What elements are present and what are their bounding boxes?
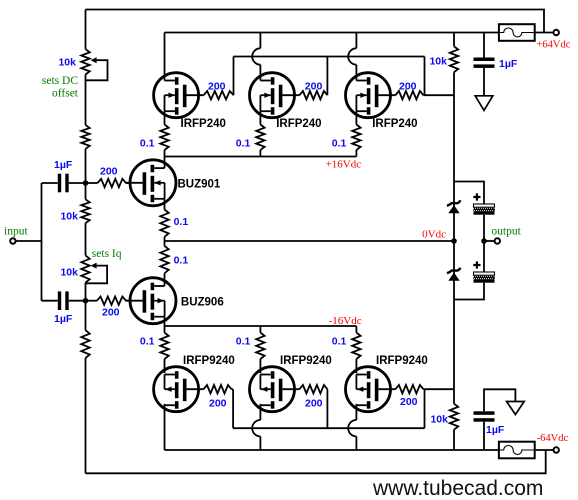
wire 0.1 to +16 bus [164, 150, 166, 157]
svg-text:0.1: 0.1 [140, 138, 155, 150]
transistor Q7 IRFP9240 [250, 367, 300, 412]
wire input to splitter [16, 240, 42, 242]
wire 0.1 to output line [164, 237, 166, 241]
label www.tubecad.com [372, 477, 543, 500]
label 200 Q7 [305, 398, 323, 410]
capacitor C1 1uF input top [58, 174, 69, 193]
resistor 10k bottom right [450, 404, 458, 430]
svg-text:offset: offset [52, 87, 79, 99]
wire IRFP9240-1 source from bus [164, 326, 166, 333]
svg-text:BUZ906: BUZ906 [181, 297, 224, 309]
wire left column segment pot1-res [85, 75, 87, 126]
wire top gate bus [234, 56, 425, 58]
resistor 0.1 Q8 source [352, 333, 360, 359]
wire BUZ901 drain from bus [164, 157, 166, 169]
svg-text:0.1: 0.1 [236, 336, 251, 348]
label 200 Q1 [208, 81, 226, 93]
resistor 0.1 Q7 source [256, 333, 264, 359]
svg-text:10k: 10k [58, 56, 76, 68]
label 200 Q6 [209, 398, 227, 410]
svg-text:1µF: 1µF [499, 58, 518, 70]
wiper of P1 [86, 57, 108, 80]
wire rail cap to ground [483, 68, 485, 96]
svg-text:IRFP9240: IRFP9240 [280, 355, 332, 367]
wire -16V source bus [165, 325, 357, 327]
wire left column segment pot2-nodeB [85, 283, 87, 331]
wire C2 to node B [69, 300, 86, 302]
svg-text:www.tubecad.com: www.tubecad.com [372, 477, 543, 500]
wire Q6 drain to rail [164, 404, 166, 450]
resistor upper-left (unlabeled) [81, 125, 89, 149]
label BUZ906 [181, 297, 224, 309]
capacitor electrolytic bottom [474, 272, 495, 283]
wire left column segment res-nodeA [85, 149, 87, 200]
wire Q3 source down [355, 111, 357, 124]
wire 0.1 Q8 to transistor [355, 359, 357, 373]
svg-text:0.1: 0.1 [174, 255, 189, 267]
svg-text:IRFP240: IRFP240 [181, 118, 226, 130]
label -64Vdc [537, 433, 569, 444]
wire to C1 [42, 182, 58, 184]
wire IRFP9240-7 source from bus [259, 326, 261, 333]
wire C1 to node A [69, 182, 86, 184]
wire IRFP240-3 drain lower [355, 65, 357, 81]
node B junction dot [83, 298, 89, 304]
svg-text:-64Vdc: -64Vdc [537, 433, 569, 444]
wire BUZ906 source to -16 bus [164, 317, 166, 326]
wire IRFP240-2 drain upper [259, 33, 261, 49]
resistor 0.1 Q1 source [160, 125, 168, 151]
wire bias line upper [453, 72, 455, 241]
plus sign bottom cap [473, 261, 480, 268]
label 1uF top rail [499, 58, 518, 70]
svg-text:BUZ901: BUZ901 [178, 178, 221, 190]
wire 0.1 to BUZ906 drain [164, 273, 166, 286]
svg-text:1µF: 1µF [54, 313, 73, 325]
hop of drain wire 2 over gate bus [252, 48, 260, 64]
wire 0.1 to Q6 [164, 359, 166, 373]
label 200 BUZ906 gate [102, 307, 120, 319]
wire top cap branch [454, 182, 484, 205]
transistor Q8 IRFP9240 [346, 367, 396, 412]
label 0.1 Q1 [140, 138, 155, 150]
label BUZ901 [178, 178, 221, 190]
svg-text:0Vdc: 0Vdc [422, 229, 446, 241]
plus sign top cap [473, 193, 480, 200]
label P1 10k [58, 56, 76, 68]
resistor 0.1 Q6 source [160, 333, 168, 359]
svg-text:sets Iq: sets Iq [92, 248, 122, 260]
hop of drain wire 3 over gate bus [348, 48, 356, 64]
label +64Vdc [537, 40, 571, 51]
wire bias line top [453, 33, 455, 47]
output terminal [495, 238, 500, 243]
zener diode top [447, 200, 460, 213]
wire Q8 gate to bias line [423, 388, 454, 390]
svg-text:0.1: 0.1 [140, 336, 155, 348]
fuse F1 +64V [499, 24, 535, 41]
svg-text:output: output [491, 226, 521, 238]
wire output line to 0.1 [164, 241, 166, 246]
svg-text:1µF: 1µF [54, 159, 73, 171]
label 0.1 Q7 [236, 336, 251, 348]
label 200 Q8 [400, 396, 418, 408]
wire input splitter vertical [41, 183, 43, 301]
wire IRFP240-2 drain lower [259, 65, 261, 81]
potentiometer P2 10k sets Iq [81, 255, 89, 282]
svg-text:200: 200 [399, 81, 417, 93]
wire Q7 drain lower [259, 436, 261, 450]
wire IRFP240-1 drain from rail [164, 33, 166, 81]
svg-text:200: 200 [209, 398, 227, 410]
resistor 200 Q3 gate [395, 91, 423, 99]
label Q7 IRFP9240 [280, 355, 332, 367]
svg-text:-16Vdc: -16Vdc [329, 315, 362, 327]
wire +16V source bus [165, 156, 357, 158]
fuse F2 -64V [499, 442, 535, 459]
resistor 0.1 Q2 source [256, 125, 264, 151]
wire IRFP240-3 drain upper [355, 33, 357, 49]
wire bias line bottom [453, 430, 455, 450]
resistor 200 Q6 gate [204, 385, 232, 393]
wire Q8 drain upper [355, 404, 357, 420]
wire R to BUZ901 gate [126, 182, 131, 184]
wire top cap to output node [483, 215, 485, 241]
wire IRFP9240-8 source from bus [355, 326, 357, 333]
wire output line [165, 240, 455, 242]
label 0.1 Q6 [140, 336, 155, 348]
transistor Q6 IRFP9240 #1 [154, 367, 204, 412]
svg-text:200: 200 [305, 398, 323, 410]
svg-text:0.1: 0.1 [332, 336, 347, 348]
transistor Q5 BUZ906 [126, 278, 177, 324]
terminal +64Vdc [554, 30, 559, 35]
wire 0.1 Q3 to bus [355, 150, 357, 157]
svg-text:+16Vdc: +16Vdc [326, 159, 362, 171]
label 0.1 Q2 [236, 138, 251, 150]
svg-text:10k: 10k [430, 414, 448, 426]
label Q1 IRFP240 [181, 118, 226, 130]
wire left column top segment [85, 10, 87, 50]
label output [491, 226, 521, 238]
svg-text:200: 200 [305, 81, 323, 93]
wire bottom gate bus faller [424, 389, 426, 428]
label P2 10k [60, 267, 78, 279]
wire fuse to -64Vdc terminal [535, 449, 554, 451]
resistor 10k left middle [81, 199, 89, 223]
wire Q7 gate faller [326, 389, 328, 428]
transistor Q1 IRFP240 #1 [154, 73, 204, 118]
ground bottom [507, 402, 525, 415]
label 10k left middle [60, 211, 78, 223]
wire bottom gate bus [233, 427, 425, 429]
wire 0.1 Q2 to bus [259, 150, 261, 157]
svg-text:0.1: 0.1 [332, 138, 347, 150]
resistor 10k top right [450, 46, 458, 72]
label 0.1 Q8 [332, 336, 347, 348]
label 200 Q2 [305, 81, 323, 93]
label 0Vdc [422, 229, 446, 241]
label 0.1 BUZ901 [174, 216, 189, 228]
label -16Vdc [329, 315, 362, 327]
svg-text:IRFP240: IRFP240 [276, 118, 321, 130]
wire rail cap bottom to rail [483, 422, 485, 450]
label C2 1uF [54, 313, 73, 325]
wire R to BUZ906 gate [126, 300, 131, 302]
label 0.1 BUZ906 [174, 255, 189, 267]
label Q3 IRFP240 [372, 118, 417, 130]
svg-text:0.1: 0.1 [174, 216, 189, 228]
wire left column segment 10k-pot2 [85, 223, 87, 255]
node output-bias junction dot [451, 238, 457, 244]
wire BUZ901 source down [164, 199, 166, 210]
svg-text:sets DC: sets DC [42, 75, 78, 87]
wire to C2cap [42, 300, 58, 302]
wire Q6 gate faller [232, 389, 234, 428]
capacitor C2 1uF input bottom [58, 291, 69, 310]
label 200 BUZ901 gate [100, 165, 118, 177]
resistor 0.1 BUZ906 drain [160, 246, 168, 273]
transistor Q2 IRFP240 #2 [250, 73, 300, 118]
wire fuse to +64Vdc terminal [535, 32, 554, 34]
label Q8 IRFP9240 [376, 355, 428, 367]
svg-text:10k: 10k [429, 55, 447, 67]
resistor 200 BUZ901 gate [98, 179, 127, 187]
label Q6 IRFP9240 [183, 355, 235, 367]
capacitor 1uF top rail [474, 58, 495, 68]
node output-cap junction dot [481, 238, 487, 244]
wire left column segment nodeB-bottom [85, 358, 87, 473]
svg-text:10k: 10k [60, 267, 78, 279]
resistor 200 Q2 gate [299, 91, 327, 99]
label 10k bottom right [430, 414, 448, 426]
hop of drain wire Q8 over bottom gate bus [348, 420, 356, 436]
wire bias line lower [453, 241, 455, 404]
wire +64V inner rail [165, 32, 499, 34]
capacitor 1uF bottom rail [474, 411, 495, 421]
label +16Vdc [326, 159, 362, 171]
resistor 0.1 Q3 source [352, 125, 360, 151]
resistor 0.1 BUZ901 source [160, 210, 168, 237]
label 0.1 Q3 [332, 138, 347, 150]
wire top outer rail from left column to +64Vdc node [86, 10, 545, 33]
resistor 200 Q7 gate [299, 385, 327, 393]
node A junction dot [83, 180, 89, 186]
wire -64V inner rail [165, 449, 499, 451]
svg-text:10k: 10k [60, 211, 78, 223]
svg-text:input: input [4, 225, 28, 237]
terminal -64Vdc [554, 447, 559, 452]
wire Q6 gate tail [232, 388, 234, 390]
label Q2 IRFP240 [276, 118, 321, 130]
svg-text:IRFP9240: IRFP9240 [376, 355, 428, 367]
transistor Q3 IRFP240 #3 [346, 73, 396, 118]
wire rail cap top [483, 33, 485, 58]
wire Q3 gate to bias line [423, 94, 454, 96]
ground top [475, 96, 493, 111]
wire Q2 gate riser [326, 57, 328, 96]
wire bottom cap branch [454, 283, 484, 300]
svg-text:0.1: 0.1 [236, 138, 251, 150]
wire top gate bus riser [424, 57, 426, 96]
svg-text:1µF: 1µF [486, 424, 505, 436]
label offset [52, 87, 79, 99]
svg-text:200: 200 [102, 307, 120, 319]
potentiometer P1 10k sets DC offset [81, 49, 89, 74]
svg-text:IRFP240: IRFP240 [372, 118, 417, 130]
wire bottom outer rail to -64Vdc node [86, 450, 546, 473]
label input [4, 225, 28, 237]
svg-text:IRFP9240: IRFP9240 [183, 355, 235, 367]
wiper of P2 [86, 263, 108, 284]
input terminal [10, 238, 15, 243]
resistor lower-left (unlabeled) [81, 330, 89, 358]
resistor 200 BUZ906 gate [97, 297, 126, 305]
label sets DC [42, 75, 78, 87]
wire 0.1 Q7 to transistor [259, 359, 261, 373]
wire node B to R gate [86, 300, 97, 302]
resistor 200 Q8 gate [395, 385, 423, 393]
wire Q8 drain lower [355, 436, 357, 450]
wire to output terminal [484, 240, 494, 242]
wire bottom cap to ground [484, 389, 515, 411]
wire Q7 drain upper [259, 404, 261, 420]
wire Q2 source down [259, 111, 261, 124]
label C1 1uF [54, 159, 73, 171]
wire Q1 source down [164, 111, 166, 124]
label 200 Q3 [399, 81, 417, 93]
svg-text:200: 200 [100, 165, 118, 177]
wire node A to R gate [86, 182, 98, 184]
wire Q1 gate riser [233, 57, 235, 96]
svg-text:200: 200 [208, 81, 226, 93]
svg-text:+64Vdc: +64Vdc [537, 40, 571, 51]
label sets Iq [92, 248, 122, 260]
resistor 200 Q1 gate [204, 91, 234, 99]
label 10k top right [429, 55, 447, 67]
capacitor electrolytic top [474, 204, 495, 215]
hop of drain wire Q7 over bottom gate bus [252, 420, 260, 436]
transistor Q4 BUZ901 [126, 160, 177, 206]
label 1uF bottom rail [486, 424, 505, 436]
svg-text:200: 200 [400, 396, 418, 408]
zener diode bottom [447, 268, 460, 281]
wire bottom cap from output node [483, 241, 485, 272]
